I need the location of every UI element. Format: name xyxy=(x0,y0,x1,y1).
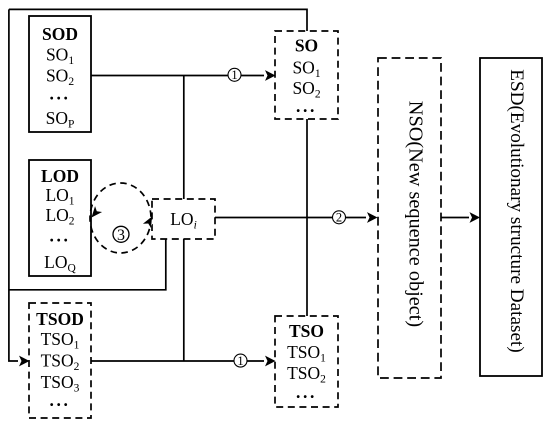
svg-text:...: ... xyxy=(50,84,71,104)
svg-text:1: 1 xyxy=(237,354,243,368)
svg-text:1: 1 xyxy=(231,68,237,82)
svg-text:TSOD: TSOD xyxy=(36,309,84,329)
svg-text:...: ... xyxy=(50,226,71,246)
svg-text:...: ... xyxy=(50,390,71,410)
svg-text:SOD: SOD xyxy=(42,24,78,44)
svg-text:2: 2 xyxy=(336,211,342,225)
svg-text:NSO(New sequence object): NSO(New sequence object) xyxy=(405,101,427,327)
svg-text:LOi: LOi xyxy=(170,209,197,232)
svg-text:LOD: LOD xyxy=(41,166,79,186)
svg-text:SO: SO xyxy=(295,36,318,56)
svg-text:3: 3 xyxy=(117,227,125,244)
svg-text:TSO: TSO xyxy=(289,321,324,341)
svg-text:...: ... xyxy=(296,96,317,116)
svg-text:ESD(Evolutionary structure Dat: ESD(Evolutionary structure Dataset) xyxy=(506,69,527,352)
svg-text:...: ... xyxy=(296,382,317,402)
